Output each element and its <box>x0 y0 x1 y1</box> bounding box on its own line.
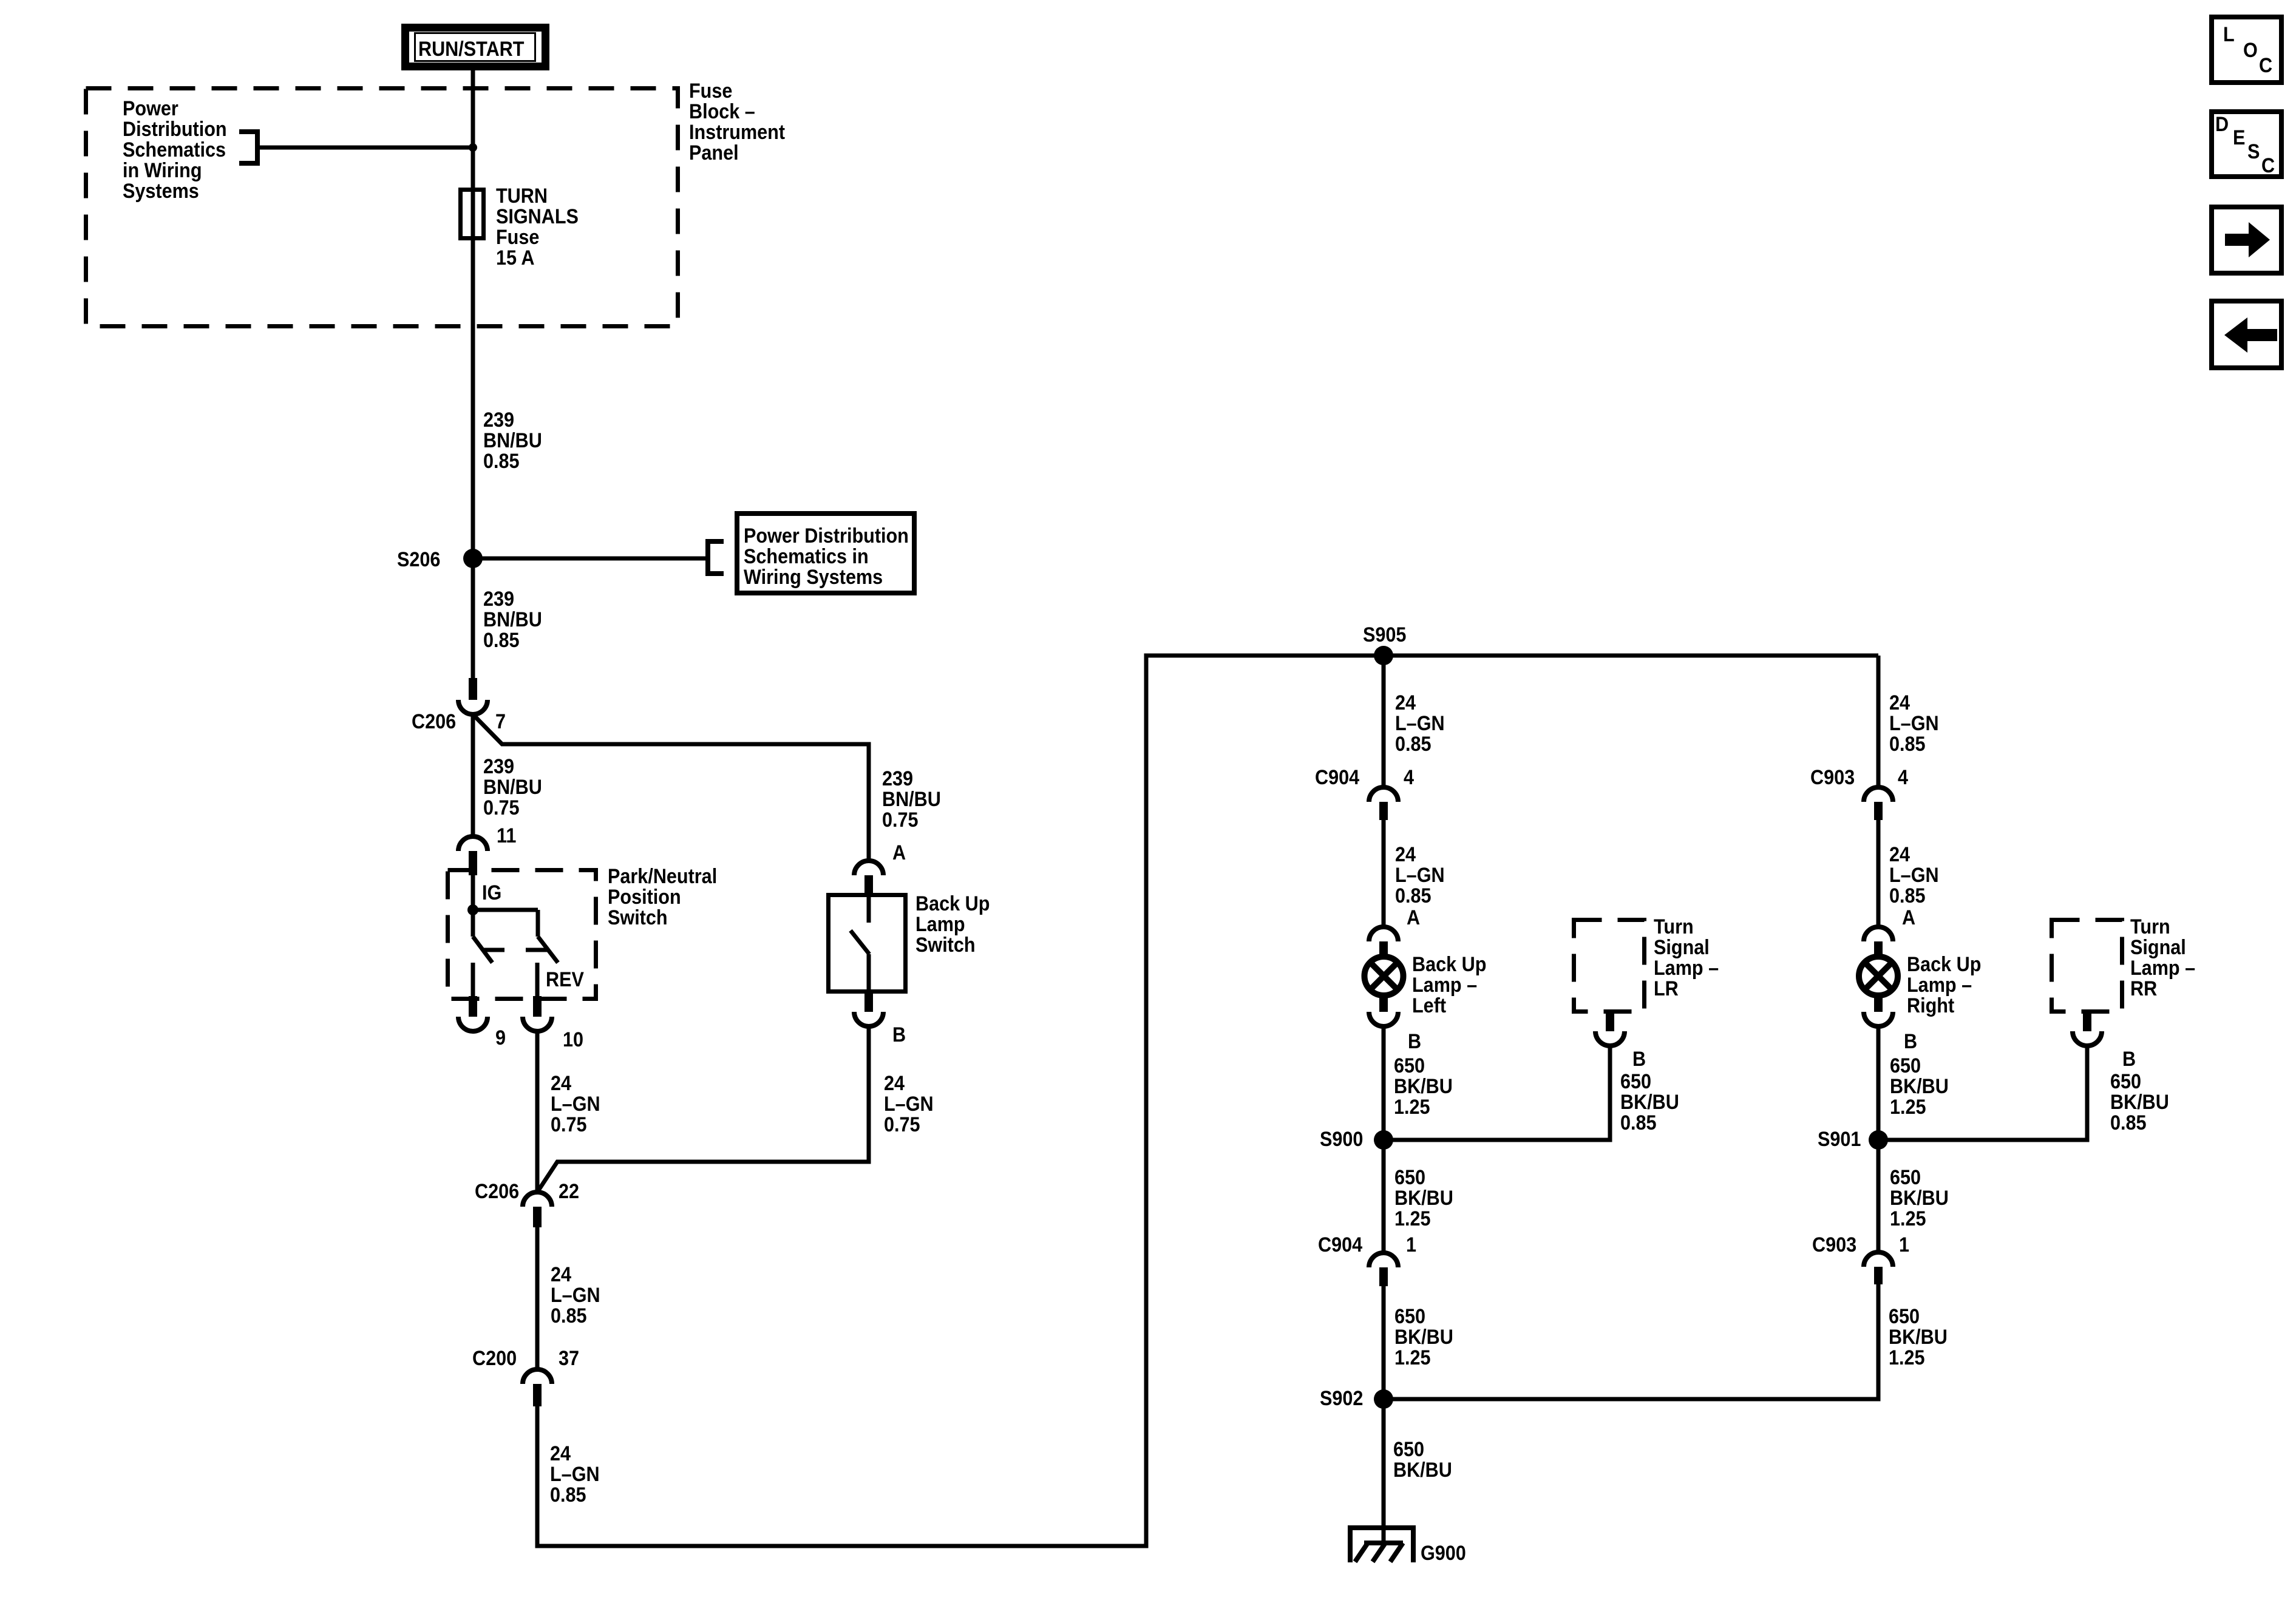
label C200 <box>472 1347 517 1370</box>
wire to pin 9 <box>471 963 475 996</box>
back up lamp switch box <box>829 895 906 992</box>
wire main rail RUN/START down to C206 <box>471 68 475 681</box>
svg-text:37: 37 <box>559 1347 579 1370</box>
connector C206 pin 7 <box>458 678 487 714</box>
switch contact bar left <box>483 948 504 952</box>
svg-text:1: 1 <box>1899 1233 1909 1256</box>
wire pin 11 to IG node <box>471 875 475 911</box>
label wire 24 L-GN 0.75 (left) <box>551 1072 600 1136</box>
label C904 <box>1315 766 1359 789</box>
wire pin 10 down to C206-22 <box>535 1031 540 1192</box>
label Back Up Lamp - Left <box>1412 953 1486 1017</box>
wire C903-4 to lamp right A <box>1877 820 1881 927</box>
svg-text:RUN/START: RUN/START <box>418 38 525 61</box>
power symbol RUN/START box <box>406 28 546 67</box>
svg-text:C: C <box>2261 154 2275 177</box>
svg-text:S901: S901 <box>1818 1128 1861 1151</box>
connector back up lamp left pin A <box>1369 927 1398 958</box>
pin label A (back up lamp right) <box>1902 906 1915 929</box>
wire C904-4 to lamp A <box>1382 820 1386 927</box>
pin label 1 (C903) <box>1899 1233 1909 1256</box>
node S905 splice dot <box>1374 646 1393 665</box>
connector C200 pin 37 <box>523 1369 552 1406</box>
wire C904-1 down to ground through S902 <box>1382 1286 1386 1543</box>
svg-text:1: 1 <box>1406 1233 1416 1256</box>
wire C206-22 to C200-37 <box>535 1227 540 1369</box>
wire S905 down to C904-4 <box>1382 656 1386 787</box>
junction dot on main rail <box>469 143 477 152</box>
svg-text:A: A <box>1902 906 1915 929</box>
svg-text:B: B <box>1408 1030 1421 1053</box>
pin label B (turn signal lamp RR) <box>2122 1048 2136 1071</box>
pin label 1 <box>1406 1233 1416 1256</box>
svg-text:L: L <box>2223 23 2235 46</box>
svg-text:4: 4 <box>1404 766 1414 789</box>
pin label 4 <box>1404 766 1414 789</box>
connector pin 11 of park/neutral position switch <box>458 836 487 875</box>
svg-text:S900: S900 <box>1320 1128 1363 1151</box>
connector C206 pin 22 <box>523 1192 552 1227</box>
back up lamp switch internal wire top <box>867 893 871 923</box>
bracket for power distribution box <box>708 541 724 574</box>
wire lamp left B down to C904-1 through S900 <box>1382 1026 1386 1253</box>
label wire 24 L-GN 0.85 (to lamp A) <box>1395 843 1445 907</box>
label C904 (pin 1) <box>1318 1233 1362 1256</box>
connector back up lamp left pin B <box>1369 994 1398 1026</box>
svg-text:C904: C904 <box>1318 1233 1362 1256</box>
wire down to pin 9 switch pivot <box>471 910 475 937</box>
node S901 label <box>1818 1128 1861 1151</box>
turn signal lamp RR dashed box <box>2052 920 2122 1012</box>
label C206 (pin 22) <box>475 1180 519 1203</box>
connector C904 pin 4 <box>1369 787 1398 820</box>
svg-text:C903: C903 <box>1810 766 1855 789</box>
svg-text:D: D <box>2215 113 2229 136</box>
svg-text:A: A <box>1407 906 1420 929</box>
connector C904 pin 1 <box>1369 1253 1398 1286</box>
wire S902 rail to C903-1 <box>1384 1284 1878 1399</box>
svg-text:IG: IG <box>482 881 501 904</box>
label Turn Signal Lamp - LR <box>1654 915 1719 1000</box>
node S902 label <box>1320 1387 1363 1410</box>
label wire 650 BK/BU 1.25 (above S900) <box>1394 1054 1453 1119</box>
svg-text:7: 7 <box>495 710 506 733</box>
switch blade right REV (open) <box>538 937 558 963</box>
svg-text:C: C <box>2259 54 2272 77</box>
svg-text:S206: S206 <box>397 548 440 571</box>
label wire 650 BK/BU 1.25 (below S900) <box>1394 1166 1453 1230</box>
node IG junction dot <box>467 904 478 915</box>
svg-text:B: B <box>1904 1030 1917 1053</box>
wire back up lamp switch B down and join to C206-22 <box>537 1026 869 1192</box>
switch contact bar right <box>526 948 547 952</box>
lamp Back Up Lamp - Left <box>1365 957 1404 995</box>
label wire 24 L-GN 0.85 (right, S905 to C903) <box>1889 691 1939 756</box>
park/neutral position switch dashed box <box>448 870 596 999</box>
bracket for power distribution reference <box>239 132 257 163</box>
node S206 splice dot <box>463 549 483 568</box>
svg-text:C206: C206 <box>412 710 456 733</box>
label wire 239 BN/BU 0.85 (below S206) <box>483 588 542 652</box>
svg-text:B: B <box>892 1023 906 1046</box>
svg-text:11: 11 <box>497 824 516 847</box>
label IG <box>482 881 501 904</box>
node S901 splice dot <box>1869 1130 1888 1150</box>
ground G900 symbol <box>1348 1525 1416 1562</box>
wire S901 branch to turn signal lamp RR <box>1878 1046 2087 1140</box>
svg-text:REV: REV <box>546 968 584 991</box>
label wire 650 BK/BU 1.25 (above S902) <box>1394 1305 1453 1369</box>
label wire 24 L-GN 0.85 (S905 to C904) <box>1395 691 1445 756</box>
wire C206-7 down to pin 11 <box>471 714 475 836</box>
wire C200-37 down, bottom run, riser and S905 rail <box>537 656 1878 1546</box>
svg-text:22: 22 <box>559 1180 579 1203</box>
pin label 10 <box>563 1028 583 1051</box>
wire branch from C206-7 to back up lamp switch pin A <box>473 714 869 861</box>
wire S900 branch to turn signal lamp LR <box>1384 1046 1610 1140</box>
svg-text:C903: C903 <box>1812 1233 1856 1256</box>
pin label A (back up lamp left) <box>1407 906 1420 929</box>
connector C903 pin 4 <box>1864 787 1893 820</box>
svg-text:S902: S902 <box>1320 1387 1363 1410</box>
label wire 24 L-GN 0.85 (to lamp right A) <box>1889 843 1939 907</box>
label wire 239 BN/BU 0.85 (above S206) <box>483 408 542 473</box>
svg-text:9: 9 <box>495 1026 506 1049</box>
node S902 splice dot <box>1374 1389 1393 1409</box>
label wire 24 L-GN 0.75 (right) <box>884 1072 934 1136</box>
pin label 37 <box>559 1347 579 1370</box>
switch blade left (open) <box>473 937 492 963</box>
wire bracket to main rail <box>257 146 473 150</box>
node S900 splice dot <box>1374 1130 1393 1150</box>
svg-text:C200: C200 <box>472 1347 517 1370</box>
svg-text:10: 10 <box>563 1028 583 1051</box>
connector back up lamp right pin A <box>1864 927 1893 958</box>
lamp Back Up Lamp - Right <box>1859 957 1898 995</box>
svg-text:S: S <box>2247 140 2260 163</box>
reference box Power Distribution Schematics in Wiring Systems <box>737 514 914 593</box>
label TURN SIGNALS Fuse 15 A <box>496 185 579 269</box>
fuse block dashed box: Fuse Block - Instrument Panel <box>86 89 678 327</box>
label wire 650 BK/BU 0.85 (turn signal RR) <box>2110 1070 2169 1134</box>
pin label B (back up lamp left) <box>1408 1030 1421 1053</box>
svg-text:E: E <box>2233 126 2245 149</box>
turn signal lamp LR dashed box <box>1574 920 1645 1012</box>
pin label 9 <box>495 1026 506 1049</box>
label Back Up Lamp - Right <box>1907 953 1981 1017</box>
node S905 label <box>1363 623 1406 646</box>
node S900 label <box>1320 1128 1363 1151</box>
connector turn signal lamp RR pin B <box>2073 1014 2102 1046</box>
label wire 650 BK/BU 1.25 (above S901) <box>1890 1054 1949 1119</box>
node S206 label <box>397 548 440 571</box>
fuse TURN SIGNALS 15 A <box>461 190 484 239</box>
label REV <box>546 968 584 991</box>
label Power Distribution Schematics in Wiring Systems (left) <box>123 97 227 203</box>
label Park/Neutral Position Switch <box>608 865 717 929</box>
label wire 650 BK/BU 0.85 (turn signal LR) <box>1620 1070 1679 1134</box>
wire lamp right B down to C903-1 through S901 <box>1877 1026 1881 1252</box>
pin label 7 <box>495 710 506 733</box>
connector back up lamp switch pin B <box>854 994 883 1026</box>
label wire 650 BK/BU (to ground) <box>1393 1438 1452 1482</box>
svg-text:O: O <box>2243 39 2258 62</box>
label Turn Signal Lamp - RR <box>2130 915 2195 1000</box>
label wire 239 BN/BU 0.75 (left branch) <box>483 755 542 819</box>
pin label 22 <box>559 1180 579 1203</box>
pin label B (back up lamp switch) <box>892 1023 906 1046</box>
pin label 11 <box>497 824 516 847</box>
wire IG to REV contact branch <box>473 908 538 912</box>
connector back up lamp right pin B <box>1864 994 1893 1026</box>
pin label B (back up lamp right) <box>1904 1030 1917 1053</box>
nav button DESC <box>2212 112 2281 177</box>
label Back Up Lamp Switch <box>915 892 990 957</box>
pin label 4 (C903) <box>1898 766 1908 789</box>
nav button arrow right <box>2212 207 2281 273</box>
nav button LOC <box>2212 17 2281 83</box>
connector back up lamp switch pin A <box>854 861 883 893</box>
svg-text:A: A <box>892 841 906 864</box>
label wire 239 BN/BU 0.75 (right branch) <box>882 767 941 832</box>
connector C903 pin 1 <box>1864 1252 1893 1284</box>
label C903 (pin 1) <box>1812 1233 1856 1256</box>
label wire 24 L-GN 0.85 <box>551 1263 600 1327</box>
connector turn signal lamp LR pin B <box>1595 1014 1625 1046</box>
label wire 650 BK/BU 1.25 (below S901) <box>1890 1166 1949 1230</box>
pin label A (back up lamp switch) <box>892 841 906 864</box>
wire down to REV switch pivot <box>536 910 540 937</box>
svg-text:B: B <box>2122 1048 2136 1071</box>
label C206 <box>412 710 456 733</box>
ground label G900 <box>1421 1542 1466 1565</box>
back up lamp switch internal wire bottom <box>867 954 871 994</box>
pin label B (turn signal lamp LR) <box>1632 1048 1646 1071</box>
label Fuse Block - Instrument Panel <box>689 80 785 164</box>
back up lamp switch blade (open) <box>851 931 869 954</box>
label C903 <box>1810 766 1855 789</box>
label wire 24 L-GN 0.85 (bottom) <box>550 1442 600 1507</box>
connector pin 10 <box>523 996 552 1031</box>
svg-text:C904: C904 <box>1315 766 1359 789</box>
svg-text:G900: G900 <box>1421 1542 1466 1565</box>
svg-text:C206: C206 <box>475 1180 519 1203</box>
svg-text:4: 4 <box>1898 766 1908 789</box>
connector pin 9 <box>458 996 487 1031</box>
svg-text:B: B <box>1632 1048 1646 1071</box>
svg-text:S905: S905 <box>1363 623 1406 646</box>
wire S905 rail down right side to C903-4 <box>1877 656 1881 787</box>
nav button arrow left <box>2212 301 2281 368</box>
wire to pin 10 <box>535 963 540 996</box>
wire S206 to bracket <box>473 557 708 561</box>
label wire 650 BK/BU 1.25 (below C903-1) <box>1889 1305 1948 1369</box>
